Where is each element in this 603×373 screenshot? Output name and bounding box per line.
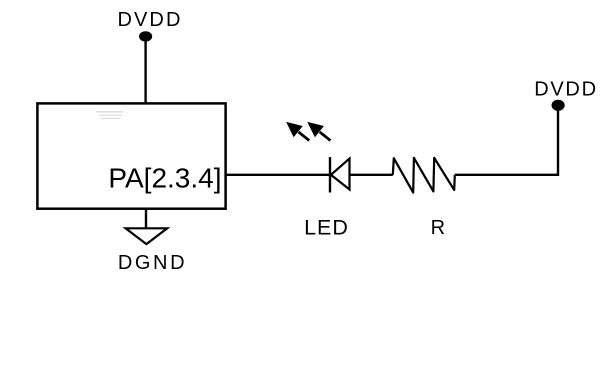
svg-text:R: R [431,217,445,239]
svg-text:LED: LED [304,215,349,239]
IC box U1 [37,103,225,208]
wire resistor to corner [455,174,558,176]
wire DVDD dot to box top [144,36,146,103]
wire ground stub [145,209,147,229]
LED emission arrow 1 [288,123,310,141]
node dot DVDD top [139,31,152,41]
node dot DVDD right [552,100,565,111]
svg-text:DGND: DGND [118,252,187,274]
svg-text:DVDD: DVDD [117,9,182,31]
svg-text:DVDD: DVDD [534,78,597,100]
wire corner up to DVDD dot [557,105,559,176]
LED emission arrow 2 [309,123,331,141]
LED D1 triangle [331,159,350,190]
ground symbol DGND triangle [126,228,168,244]
resistor R zigzag [393,158,455,193]
svg-text:PA[2.3.4]: PA[2.3.4] [108,163,221,194]
wire LED anode to resistor [350,174,393,176]
faint erased-text ghost inside box [96,111,123,119]
wire box to LED cathode [226,174,331,176]
LED D1 cathode bar [329,157,331,192]
